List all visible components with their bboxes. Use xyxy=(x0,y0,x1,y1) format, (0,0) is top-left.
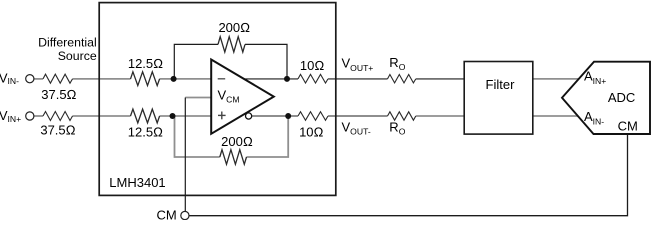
wire bottom RO to filter grey xyxy=(416,115,464,117)
wire filter to ADC top xyxy=(533,78,580,80)
output bubble xyxy=(246,113,252,119)
svg-text:37.5Ω: 37.5Ω xyxy=(41,87,76,102)
svg-text:VIN+: VIN+ xyxy=(0,108,21,124)
junction dot bottom-right xyxy=(285,113,291,119)
junction dot bottom-left xyxy=(170,113,176,119)
svg-text:12.5Ω: 12.5Ω xyxy=(128,125,163,140)
op-amp minus sign xyxy=(218,78,226,80)
svg-text:10Ω: 10Ω xyxy=(300,58,324,73)
svg-text:CM: CM xyxy=(157,207,177,220)
svg-text:RO: RO xyxy=(389,55,405,72)
resistor 37.5 top xyxy=(43,74,73,83)
wire top feedback loop xyxy=(174,44,218,79)
terminal CM xyxy=(181,211,189,219)
svg-text:12.5Ω: 12.5Ω xyxy=(128,56,163,71)
svg-text:CM: CM xyxy=(618,118,638,133)
svg-text:37.5Ω: 37.5Ω xyxy=(40,122,75,137)
LMH3401 box xyxy=(99,3,336,196)
resistor RO bottom xyxy=(388,112,416,120)
resistor 10 top xyxy=(298,74,328,83)
resistor 37.5 bottom xyxy=(43,112,73,121)
resistor 12.5 bottom xyxy=(131,109,160,123)
svg-text:RO: RO xyxy=(389,120,405,137)
svg-text:ADC: ADC xyxy=(608,90,635,105)
svg-text:Filter: Filter xyxy=(486,77,516,92)
svg-text:VOUT+: VOUT+ xyxy=(342,56,374,73)
terminal VIN- xyxy=(26,75,34,83)
svg-text:VIN-: VIN- xyxy=(0,70,19,86)
svg-text:200Ω: 200Ω xyxy=(221,134,253,149)
wire top output run xyxy=(240,78,464,80)
svg-text:Differential: Differential xyxy=(38,36,97,50)
junction dot top-left xyxy=(171,76,177,82)
wire CM bottom run to ADC xyxy=(189,134,628,216)
wire CM vertical from VCM pin xyxy=(184,98,186,212)
resistor 200 top xyxy=(218,37,245,52)
resistor 12.5 top xyxy=(131,72,160,86)
junction dot top-right xyxy=(284,76,290,82)
svg-text:VOUT-: VOUT- xyxy=(342,119,371,136)
resistor RO top xyxy=(388,75,416,83)
resistor 10 bottom xyxy=(298,112,328,121)
wire V_IN+ input run xyxy=(34,115,211,117)
op-amp plus sign xyxy=(218,114,226,116)
svg-text:200Ω: 200Ω xyxy=(218,20,250,35)
wire V_IN- input run xyxy=(34,78,211,80)
svg-text:Source: Source xyxy=(58,49,97,63)
wire filter to ADC bottom xyxy=(533,115,579,117)
resistor 200 bottom xyxy=(220,150,247,165)
svg-text:10Ω: 10Ω xyxy=(299,125,323,140)
svg-text:LMH3401: LMH3401 xyxy=(109,175,165,190)
terminal VIN+ xyxy=(26,112,34,120)
ADC pentagon xyxy=(562,62,650,134)
wire VCM stub xyxy=(185,97,211,99)
filter box xyxy=(464,62,533,135)
op-amp triangle xyxy=(211,60,274,134)
wire bottom feedback loop xyxy=(175,116,220,157)
wire bottom output run black part xyxy=(246,115,388,117)
